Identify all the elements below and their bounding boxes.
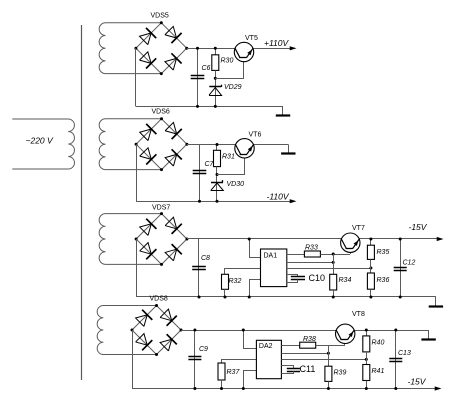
arrow -110V output: [290, 199, 297, 203]
wire left riser section2: [136, 144, 138, 201]
wire top rail section4: [181, 330, 429, 332]
wire C9 riser: [194, 330, 196, 389]
label R34: [339, 277, 352, 284]
label C8: [201, 255, 210, 262]
node C9 top: [193, 329, 196, 332]
node R35 top: [369, 238, 372, 241]
label VT5: [245, 35, 258, 42]
wire DA1 bottom riser: [250, 280, 261, 298]
node C13 bottom: [394, 387, 397, 390]
svg-text:VT6: VT6: [249, 132, 262, 139]
wire R34 bottom: [333, 290, 335, 297]
wire R33 to VT7 base: [320, 254, 350, 256]
label R39: [334, 370, 347, 377]
zener diode VD30: [211, 180, 224, 191]
zener diode VD29: [209, 85, 222, 96]
wire R30 riser: [215, 48, 217, 55]
node VD30 bottom: [216, 200, 219, 203]
resistor R38: [300, 342, 316, 348]
capacitor C10: [291, 277, 305, 280]
node R35-R36 junction: [369, 267, 372, 270]
svg-text:R33: R33: [305, 245, 318, 252]
capacitor C7: [193, 171, 207, 174]
svg-text:R34: R34: [339, 277, 352, 284]
wire R37 top: [222, 360, 257, 364]
wire VT6 base lead: [217, 154, 245, 174]
secondary winding II: [99, 119, 161, 170]
label C9: [199, 346, 208, 353]
resistor R30: [212, 55, 219, 71]
svg-text:C13: C13: [398, 350, 411, 357]
svg-text:R35: R35: [377, 249, 390, 256]
resistor R37: [218, 363, 225, 380]
label VDS7: [152, 205, 170, 212]
wire VT8 base lead: [344, 340, 346, 346]
wire DA1 row2: [287, 262, 333, 264]
svg-text:R32: R32: [229, 278, 242, 285]
op-amp regulator DA2: [256, 340, 281, 378]
wire R35 to R36: [370, 259, 372, 273]
wire R39 bottom: [328, 381, 330, 388]
svg-text:C9: C9: [199, 346, 208, 353]
svg-text:DA2: DA2: [259, 343, 273, 350]
node C8 bottom: [198, 296, 201, 299]
svg-text:VT7: VT7: [352, 225, 365, 232]
label C12: [403, 260, 416, 267]
wire C7 riser: [199, 145, 201, 202]
label R40: [372, 340, 385, 347]
wire left riser section3: [136, 239, 138, 297]
wire R31 to VD30: [216, 167, 218, 202]
node VD29 bottom: [214, 105, 217, 108]
label R36: [377, 277, 390, 284]
svg-text:C12: C12: [403, 260, 416, 267]
wire VT5 base lead: [215, 58, 243, 79]
wire DA2 top riser: [244, 330, 257, 349]
node R40-R41 junction: [365, 358, 368, 361]
node row2 junction section4: [327, 352, 330, 355]
resistor R36: [367, 273, 374, 289]
node C12 bottom: [399, 296, 402, 299]
label VDS6: [152, 109, 170, 116]
node R40 top: [365, 329, 368, 332]
arrow +110V output: [290, 46, 297, 50]
svg-text:C11: C11: [300, 364, 316, 374]
label R31: [222, 154, 235, 161]
node DA1 top riser: [248, 238, 251, 241]
label VD29: [224, 84, 242, 91]
label R35: [377, 249, 390, 256]
wire bottom rail section2: [136, 201, 290, 203]
svg-text:R36: R36: [377, 277, 390, 284]
node R31 top: [216, 143, 219, 146]
svg-text:R37: R37: [227, 369, 241, 376]
ground section1: [276, 106, 290, 115]
svg-text:VDS6: VDS6: [152, 109, 170, 116]
wire +rail section2: [187, 144, 288, 146]
secondary winding IV: [97, 306, 156, 355]
wire R31 riser: [216, 145, 218, 151]
node C6 bottom: [196, 105, 199, 108]
label DA1: [264, 253, 278, 260]
wire R34 riser: [333, 254, 335, 274]
node R39 bottom: [327, 387, 330, 390]
wire C6 riser: [197, 48, 199, 106]
label C7: [205, 161, 215, 168]
wire R32 top: [225, 269, 261, 275]
wire C10 bottom lead: [287, 280, 298, 283]
wire DA1 row3 to R35-R36: [287, 268, 371, 270]
node R41 bottom: [365, 387, 368, 390]
resistor R34: [330, 274, 337, 290]
svg-text:R31: R31: [222, 154, 235, 161]
bridge rectifier VDS7: [135, 212, 189, 266]
bridge rectifier VDS6: [135, 117, 189, 171]
op-amp regulator DA1: [261, 249, 287, 287]
svg-text:R38: R38: [303, 336, 316, 343]
svg-text:VDS7: VDS7: [152, 205, 170, 212]
resistor R40: [363, 336, 370, 352]
label R41: [372, 368, 385, 375]
label DA2: [259, 343, 273, 350]
label R33: [305, 245, 318, 252]
wire DA1 pin to R33: [287, 254, 305, 256]
ground section3: [429, 297, 443, 307]
arrow -15V output section4: [435, 386, 442, 390]
node C13 top: [394, 329, 397, 332]
svg-text:-110V: -110V: [267, 192, 290, 202]
wire C10 top lead: [287, 275, 298, 277]
wire R35 riser: [370, 239, 372, 245]
wire C8 riser: [198, 239, 200, 297]
label -110V: [267, 192, 290, 202]
svg-text:DA1: DA1: [264, 253, 278, 260]
wire R40 riser: [366, 330, 368, 336]
label VT8: [352, 311, 365, 318]
transformer core: [81, 25, 83, 380]
label ~220 V: [26, 136, 55, 146]
wire DA2 row2: [281, 353, 328, 355]
node DA2 top riser: [242, 329, 245, 332]
svg-text:VDS5: VDS5: [151, 13, 169, 20]
node R36 bottom: [369, 296, 372, 299]
svg-text:+110V: +110V: [264, 38, 290, 48]
label R37: [227, 369, 241, 376]
wire C11 top lead: [281, 366, 293, 369]
node DA2 bottom riser: [242, 387, 245, 390]
transistor VT8: [336, 324, 355, 343]
node row2 junction: [332, 261, 335, 264]
wire bottom rail section1: [136, 106, 283, 108]
wire R39 riser: [328, 345, 330, 366]
wire top rail section3: [187, 238, 437, 240]
svg-text:-15V: -15V: [409, 222, 428, 232]
svg-text:C6: C6: [202, 65, 211, 72]
wire C13 riser: [395, 330, 397, 389]
node R34 bottom: [332, 296, 335, 299]
svg-text:VDS8: VDS8: [150, 296, 168, 303]
resistor R41: [363, 365, 370, 381]
wire bottom rail section3: [136, 296, 436, 298]
resistor R33: [304, 251, 320, 257]
label C10: [309, 273, 326, 283]
wire VT7 base lead: [350, 249, 352, 255]
wire DA2 bottom riser: [244, 371, 257, 389]
node C9 bottom: [193, 387, 196, 390]
svg-text:~220 V: ~220 V: [26, 136, 55, 146]
svg-text:VT5: VT5: [245, 35, 258, 42]
svg-text:VD30: VD30: [227, 181, 245, 188]
bridge rectifier VDS8: [131, 304, 183, 356]
label VT6: [249, 132, 262, 139]
ground section4: [421, 330, 435, 340]
wire R40 to R41: [366, 352, 368, 365]
label R38: [303, 336, 316, 343]
resistor R39: [325, 366, 332, 381]
svg-text:R40: R40: [372, 340, 385, 347]
wire R30 to VD29: [215, 70, 217, 106]
transistor VT7: [341, 233, 360, 252]
secondary winding III: [99, 214, 161, 265]
wire left riser section4: [132, 330, 134, 389]
node C6 top: [196, 47, 199, 50]
svg-text:-15V: -15V: [408, 377, 427, 387]
svg-text:C8: C8: [201, 255, 210, 262]
node DA1 bottom riser: [248, 296, 251, 299]
wire R41 bottom: [366, 381, 368, 389]
svg-text:VT8: VT8: [352, 311, 365, 318]
wire +rail section1: [187, 48, 290, 50]
wire R37 bottom: [221, 380, 223, 389]
label C6: [202, 65, 211, 72]
wire C12 riser: [400, 239, 402, 297]
wire DA2 row3 to R40-R41: [281, 359, 366, 361]
wire C11 bottom lead: [281, 371, 293, 373]
primary winding of transformer: [12, 119, 74, 169]
svg-text:R39: R39: [334, 370, 347, 377]
node C12 top: [399, 238, 402, 241]
wire R32 bottom: [224, 289, 226, 297]
capacitor C12: [394, 268, 407, 271]
capacitor C6: [191, 76, 205, 79]
svg-text:VD29: VD29: [224, 84, 242, 91]
node R32 bottom: [224, 296, 227, 299]
bridge rectifier VDS5: [134, 21, 188, 75]
label R32: [229, 278, 242, 285]
label -15V section3: [409, 222, 428, 232]
arrow -15V output section3: [437, 237, 444, 241]
wire R36 bottom: [370, 289, 372, 297]
label VD30: [227, 181, 245, 188]
transistor VT5: [234, 42, 253, 61]
node R33 junction: [332, 253, 335, 256]
resistor R32: [222, 274, 229, 289]
resistor R31: [214, 150, 221, 166]
label C11: [300, 364, 316, 374]
label +110V: [264, 38, 290, 48]
capacitor C8: [192, 267, 206, 270]
capacitor C11: [287, 369, 300, 372]
svg-text:R41: R41: [372, 368, 385, 375]
label R30: [221, 58, 234, 65]
wire DA2 pin to R38: [281, 345, 299, 347]
capacitor C9: [188, 357, 201, 360]
wire R38 to VT8 base: [316, 345, 345, 347]
node R37 bottom: [220, 387, 223, 390]
wire bottom rail section4: [132, 388, 435, 390]
secondary winding I: [99, 23, 161, 74]
node R31-VD30 junction: [216, 173, 219, 176]
wire left riser section1: [135, 48, 137, 106]
label -15V section4: [408, 377, 427, 387]
label VDS8: [150, 296, 168, 303]
ground VT6 emitter: [281, 145, 295, 154]
label C13: [398, 350, 411, 357]
svg-text:C10: C10: [309, 273, 326, 283]
node C7 bottom: [198, 200, 201, 203]
node R30 top: [214, 47, 217, 50]
label VT7: [352, 225, 365, 232]
transistor VT6: [235, 139, 254, 158]
label VDS5: [151, 13, 169, 20]
svg-text:R30: R30: [221, 58, 234, 65]
capacitor C13: [389, 359, 402, 362]
wire DA1 top riser: [250, 239, 261, 258]
resistor R35: [367, 245, 374, 259]
node R30-VD29 junction: [214, 77, 217, 80]
